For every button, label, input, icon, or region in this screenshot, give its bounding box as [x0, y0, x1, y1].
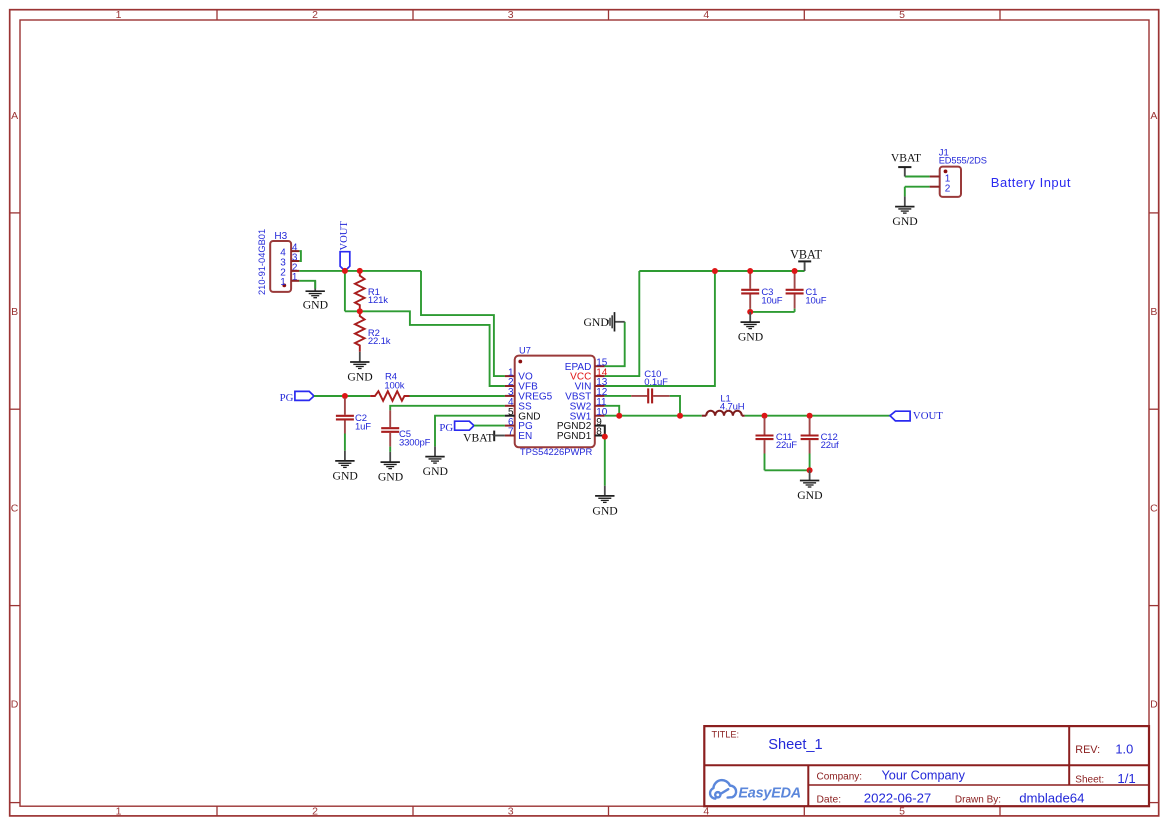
svg-text:GND: GND — [303, 298, 328, 311]
svg-text:GND: GND — [592, 504, 617, 517]
svg-text:PG: PG — [439, 422, 453, 434]
svg-text:2022-06-27: 2022-06-27 — [864, 791, 931, 806]
svg-text:8: 8 — [596, 427, 602, 438]
svg-text:GND: GND — [797, 489, 822, 502]
svg-text:3: 3 — [508, 805, 514, 817]
svg-text:Your Company: Your Company — [882, 769, 966, 783]
svg-text:22uf: 22uf — [821, 440, 839, 451]
svg-text:210-91-04GB01: 210-91-04GB01 — [257, 229, 267, 295]
svg-text:GND: GND — [423, 465, 448, 478]
svg-text:H3: H3 — [274, 231, 287, 242]
svg-text:GND: GND — [347, 371, 372, 384]
svg-text:TITLE:: TITLE: — [712, 729, 740, 739]
svg-text:Company:: Company: — [817, 772, 863, 783]
svg-text:7: 7 — [508, 427, 514, 438]
svg-text:D: D — [1150, 698, 1158, 710]
svg-text:VBAT: VBAT — [790, 248, 822, 262]
svg-text:PG: PG — [280, 392, 294, 404]
svg-text:Sheet:: Sheet: — [1075, 775, 1104, 786]
svg-text:C: C — [11, 502, 19, 514]
svg-text:PGND1: PGND1 — [557, 431, 592, 442]
svg-text:GND: GND — [892, 215, 917, 228]
svg-text:2: 2 — [312, 805, 318, 817]
svg-text:0.1uF: 0.1uF — [644, 377, 668, 388]
svg-text:VBAT: VBAT — [463, 431, 493, 444]
svg-text:5: 5 — [899, 9, 905, 21]
svg-text:B: B — [1150, 306, 1157, 318]
svg-text:22uF: 22uF — [776, 440, 797, 451]
svg-text:10uF: 10uF — [761, 296, 782, 307]
svg-text:GND: GND — [738, 331, 763, 344]
svg-text:1: 1 — [116, 9, 122, 21]
svg-text:3: 3 — [508, 9, 514, 21]
svg-text:U7: U7 — [519, 346, 531, 356]
svg-text:VOUT: VOUT — [913, 410, 943, 422]
svg-text:4: 4 — [703, 9, 709, 21]
svg-text:A: A — [1150, 110, 1157, 122]
svg-text:1: 1 — [116, 805, 122, 817]
svg-text:GND: GND — [378, 471, 403, 484]
svg-text:Drawn By:: Drawn By: — [955, 794, 1001, 805]
svg-text:100k: 100k — [384, 381, 404, 392]
svg-text:Date:: Date: — [817, 795, 842, 806]
svg-text:dmblade64: dmblade64 — [1019, 791, 1084, 806]
svg-text:A: A — [11, 110, 18, 122]
svg-text:2: 2 — [945, 183, 951, 194]
svg-text:EN: EN — [518, 431, 532, 442]
svg-text:22.1k: 22.1k — [368, 336, 391, 347]
svg-text:ED555/2DS: ED555/2DS — [939, 156, 987, 166]
svg-text:VBAT: VBAT — [891, 152, 921, 165]
svg-text:EasyEDA: EasyEDA — [738, 785, 801, 801]
svg-text:Sheet_1: Sheet_1 — [768, 737, 822, 753]
svg-text:GND: GND — [583, 316, 608, 329]
svg-text:TPS54226PWPR: TPS54226PWPR — [520, 446, 593, 457]
svg-text:D: D — [11, 698, 19, 710]
svg-text:2: 2 — [312, 9, 318, 21]
svg-text:1: 1 — [280, 277, 286, 288]
svg-text:1.0: 1.0 — [1115, 741, 1133, 756]
svg-text:4.7uH: 4.7uH — [720, 401, 745, 412]
svg-text:GND: GND — [333, 469, 358, 482]
svg-text:REV:: REV: — [1075, 744, 1100, 756]
svg-text:10uF: 10uF — [805, 296, 826, 307]
svg-text:1/1: 1/1 — [1117, 771, 1135, 786]
svg-text:1uF: 1uF — [355, 421, 371, 432]
svg-text:121k: 121k — [368, 295, 388, 306]
svg-text:3300pF: 3300pF — [399, 437, 431, 448]
svg-text:C: C — [1150, 502, 1158, 514]
svg-text:B: B — [11, 306, 18, 318]
svg-text:Battery Input: Battery Input — [991, 175, 1071, 190]
svg-text:VOUT: VOUT — [339, 221, 350, 251]
